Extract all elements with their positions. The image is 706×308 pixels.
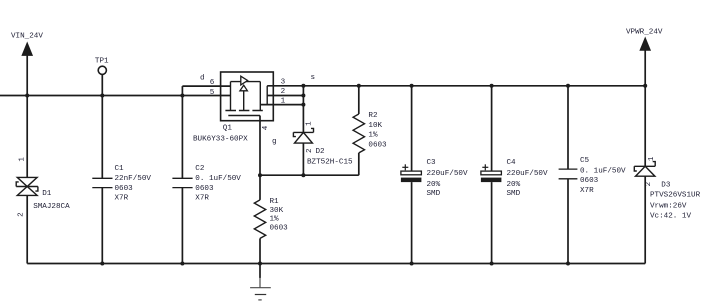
value 0603 <box>195 185 214 193</box>
svg-text:C3: C3 <box>427 159 437 167</box>
svg-text:s: s <box>311 74 316 82</box>
value 10K <box>368 122 382 130</box>
svg-text:Vc:42. 1V: Vc:42. 1V <box>650 213 691 221</box>
wire D2 branch vertical <box>302 86 304 133</box>
svg-text:0603: 0603 <box>368 141 387 149</box>
junction gate node <box>258 173 262 177</box>
svg-text:PTVS26VS1UR: PTVS26VS1UR <box>650 191 701 199</box>
testpoint TP1 circle <box>98 66 106 74</box>
svg-text:0603: 0603 <box>115 185 134 193</box>
value 1% <box>368 132 378 140</box>
pin 1 of D3 <box>648 156 656 161</box>
value SMD <box>427 190 441 198</box>
diode D3 TVS <box>634 162 655 177</box>
svg-text:20%: 20% <box>507 181 521 189</box>
wire C4 to bottom rail <box>491 182 493 263</box>
junction C1 rail <box>100 262 104 266</box>
svg-text:X7R: X7R <box>115 195 129 203</box>
capacitor C2 <box>172 178 192 187</box>
label C4 <box>507 159 517 167</box>
value SMAJ28CA <box>33 203 70 211</box>
junction VPWR bus <box>643 84 647 88</box>
pin 1 of D1 <box>19 157 27 162</box>
svg-text:0603: 0603 <box>580 177 599 185</box>
transistor Q1 body box <box>221 72 274 121</box>
svg-text:BZT52H-C15: BZT52H-C15 <box>307 159 353 167</box>
pin 2 of D1 <box>17 212 25 217</box>
label C1 <box>115 165 125 173</box>
svg-text:6: 6 <box>210 79 215 87</box>
label C2 <box>195 165 205 173</box>
net label s <box>311 74 316 82</box>
svg-text:C2: C2 <box>195 165 205 173</box>
diode D1 bidirectional TVS <box>16 177 38 195</box>
Q1 internal right link <box>259 82 261 111</box>
svg-text:10K: 10K <box>368 122 382 130</box>
power flag arrow VIN_24V <box>22 43 32 56</box>
pin number 6 <box>210 79 215 87</box>
svg-text:R2: R2 <box>368 112 378 120</box>
svg-text:220uF/50V: 220uF/50V <box>427 170 468 178</box>
svg-text:X7R: X7R <box>580 187 594 195</box>
svg-text:BUK6Y33-60PX: BUK6Y33-60PX <box>193 135 248 143</box>
wire C4 top lead <box>491 86 493 171</box>
pin number 4 tab <box>262 125 270 130</box>
svg-text:D2: D2 <box>316 148 326 156</box>
svg-text:5: 5 <box>210 89 215 97</box>
svg-text:22nF/50V: 22nF/50V <box>115 175 152 183</box>
pin label d <box>200 74 205 82</box>
svg-text:D3: D3 <box>661 182 671 190</box>
svg-text:220uF/50V: 220uF/50V <box>507 170 548 178</box>
label D1 <box>42 190 52 198</box>
wire D3 to bottom rail <box>644 176 646 263</box>
Q1 channel bars <box>225 110 262 112</box>
value 220uF/50V <box>427 170 468 178</box>
Q1 internal drain bar <box>230 82 232 111</box>
net label VIN_24V <box>11 32 43 40</box>
wire C5 to bottom rail <box>567 179 569 264</box>
net label VPWR_24V <box>626 28 663 36</box>
svg-text:20%: 20% <box>427 181 441 189</box>
wire left bus (VIN net) <box>0 95 231 97</box>
pin number 2 <box>281 88 286 96</box>
svg-text:X7R: X7R <box>195 195 209 203</box>
svg-text:VIN_24V: VIN_24V <box>11 32 43 40</box>
svg-text:2: 2 <box>281 88 286 96</box>
wire pin1 to D2 node <box>260 104 303 106</box>
svg-text:TP1: TP1 <box>95 57 109 65</box>
wire VIN arrow to bus <box>26 55 28 96</box>
value 0603 <box>368 141 387 149</box>
svg-text:0603: 0603 <box>270 224 289 232</box>
junction pin1 D2 <box>301 103 305 107</box>
junction C3 rail <box>410 262 414 266</box>
svg-text:0. 1uF/50V: 0. 1uF/50V <box>195 175 241 183</box>
svg-text:C4: C4 <box>507 159 517 167</box>
junction TP1 bus <box>100 94 104 98</box>
label Q1 <box>223 124 233 132</box>
power flag arrow VPWR_24V <box>640 38 650 51</box>
ground <box>250 264 271 300</box>
value 0603 <box>580 177 599 185</box>
label R2 <box>368 112 378 120</box>
svg-text:g: g <box>272 138 277 146</box>
value Vc:42.1V <box>650 213 691 221</box>
svg-text:Q1: Q1 <box>223 124 233 132</box>
capacitor C4 polarized <box>481 171 502 182</box>
wire C2 vertical drop <box>181 86 183 178</box>
wire bottom rail <box>27 263 645 265</box>
pin label g <box>272 138 277 146</box>
wire D1 to bottom rail <box>26 195 28 263</box>
svg-text:C1: C1 <box>115 165 125 173</box>
Q1 gate bar <box>228 115 260 117</box>
wire C3 top lead <box>411 86 413 171</box>
resistor R1 <box>254 200 265 239</box>
value 0.1uF/50V <box>580 167 626 175</box>
Q1 internal arrow <box>240 85 248 91</box>
label C3 <box>427 159 437 167</box>
label R1 <box>270 198 280 206</box>
svg-text:30K: 30K <box>270 207 284 215</box>
pin 1 of D2 <box>305 121 313 126</box>
svg-text:C5: C5 <box>580 157 590 165</box>
value BZT52H-C15 <box>307 159 353 167</box>
value BUK6Y33-60PX <box>193 135 248 143</box>
junction s bus C3 <box>410 84 414 88</box>
pin number 3 <box>281 79 286 87</box>
junction s bus D2 <box>301 84 305 88</box>
svg-text:VPWR_24V: VPWR_24V <box>626 28 663 36</box>
label C5 <box>580 157 590 165</box>
Q1 internal channel stem <box>243 91 245 111</box>
svg-text:D1: D1 <box>42 190 52 198</box>
resistor R2 <box>353 114 364 153</box>
junction C5 rail <box>566 262 570 266</box>
svg-text:SMD: SMD <box>427 190 441 198</box>
junction D2 bottom <box>301 173 305 177</box>
value Vrwm:26V <box>650 202 687 210</box>
wire gate horizontal link <box>260 174 359 176</box>
wire drain upper branch (pin6 line) <box>182 85 230 87</box>
svg-text:Vrwm:26V: Vrwm:26V <box>650 202 687 210</box>
wire gate down to junction and R1 <box>259 116 261 200</box>
wire R2 top lead <box>358 86 360 114</box>
wire D2 to gate junction <box>302 143 304 175</box>
value 30K <box>270 207 284 215</box>
value 220uF/50V <box>507 170 548 178</box>
svg-text:R1: R1 <box>270 198 280 206</box>
wire R2 bottom lead <box>358 153 360 175</box>
wire VIN bus down to D1 <box>26 96 28 178</box>
junction R1 rail <box>258 262 262 266</box>
value X7R <box>195 195 209 203</box>
capacitor C1 <box>92 178 112 187</box>
junction C4 rail <box>490 262 494 266</box>
wire TP1 down through bus to C1 <box>101 74 103 178</box>
value SMD <box>507 190 521 198</box>
value 20% <box>427 181 441 189</box>
wire R1 to bottom rail <box>259 238 261 263</box>
value X7R <box>580 187 594 195</box>
junction C2 bus <box>180 94 184 98</box>
value 20% <box>507 181 521 189</box>
svg-text:0. 1uF/50V: 0. 1uF/50V <box>580 167 626 175</box>
svg-text:1: 1 <box>305 121 313 126</box>
wire C1 to bottom rail <box>101 188 103 264</box>
pin 2 of D2 <box>306 148 314 153</box>
wire VPWR down to D3 <box>644 86 646 167</box>
value 0.1uF/50V <box>195 175 241 183</box>
value 1% <box>270 216 280 224</box>
polarity plus C3 <box>402 164 408 170</box>
capacitor C3 polarized <box>401 171 422 182</box>
value X7R <box>115 195 129 203</box>
testpoint TP1 label <box>95 57 109 65</box>
value 0603 <box>270 224 289 232</box>
zener diode D2 <box>293 128 313 143</box>
svg-text:1: 1 <box>648 156 656 161</box>
capacitor C5 <box>559 169 578 179</box>
pin number 1 <box>281 98 286 106</box>
svg-text:4: 4 <box>262 125 270 130</box>
svg-text:1: 1 <box>19 157 27 162</box>
pin number 5 <box>210 89 215 97</box>
junction s bus C5 <box>566 84 570 88</box>
wire C5 top lead <box>567 86 569 169</box>
wire C3 to bottom rail <box>411 182 413 263</box>
wire VPWR arrow to bus <box>644 50 646 86</box>
value PTVS26VS1UR <box>650 191 701 199</box>
svg-text:2: 2 <box>306 148 314 153</box>
value 22nF/50V <box>115 175 152 183</box>
wire source bus (s net) <box>267 85 645 87</box>
wire C2 to bottom rail <box>181 188 183 264</box>
svg-text:2: 2 <box>17 212 25 217</box>
svg-text:SMAJ28CA: SMAJ28CA <box>33 203 70 211</box>
svg-text:1%: 1% <box>270 216 280 224</box>
value 0603 <box>115 185 134 193</box>
label D3 <box>661 182 671 190</box>
wire pin2 to D2 node <box>267 95 303 97</box>
svg-text:0603: 0603 <box>195 185 214 193</box>
junction s bus R2 <box>357 84 361 88</box>
polarity plus C4 <box>482 164 488 170</box>
Q1 internal top link <box>231 81 261 83</box>
Q1 internal body-diode triangle <box>241 76 248 85</box>
svg-text:1%: 1% <box>368 132 378 140</box>
pin 2 of D3 <box>645 181 653 186</box>
junction s bus C4 <box>490 84 494 88</box>
Q1 source stub vertical <box>266 86 268 105</box>
junction C2 rail <box>180 262 184 266</box>
svg-text:d: d <box>200 74 205 82</box>
junction VIN bus <box>25 94 29 98</box>
svg-text:SMD: SMD <box>507 190 521 198</box>
label D2 <box>316 148 326 156</box>
junction pin2 D2 <box>301 94 305 98</box>
